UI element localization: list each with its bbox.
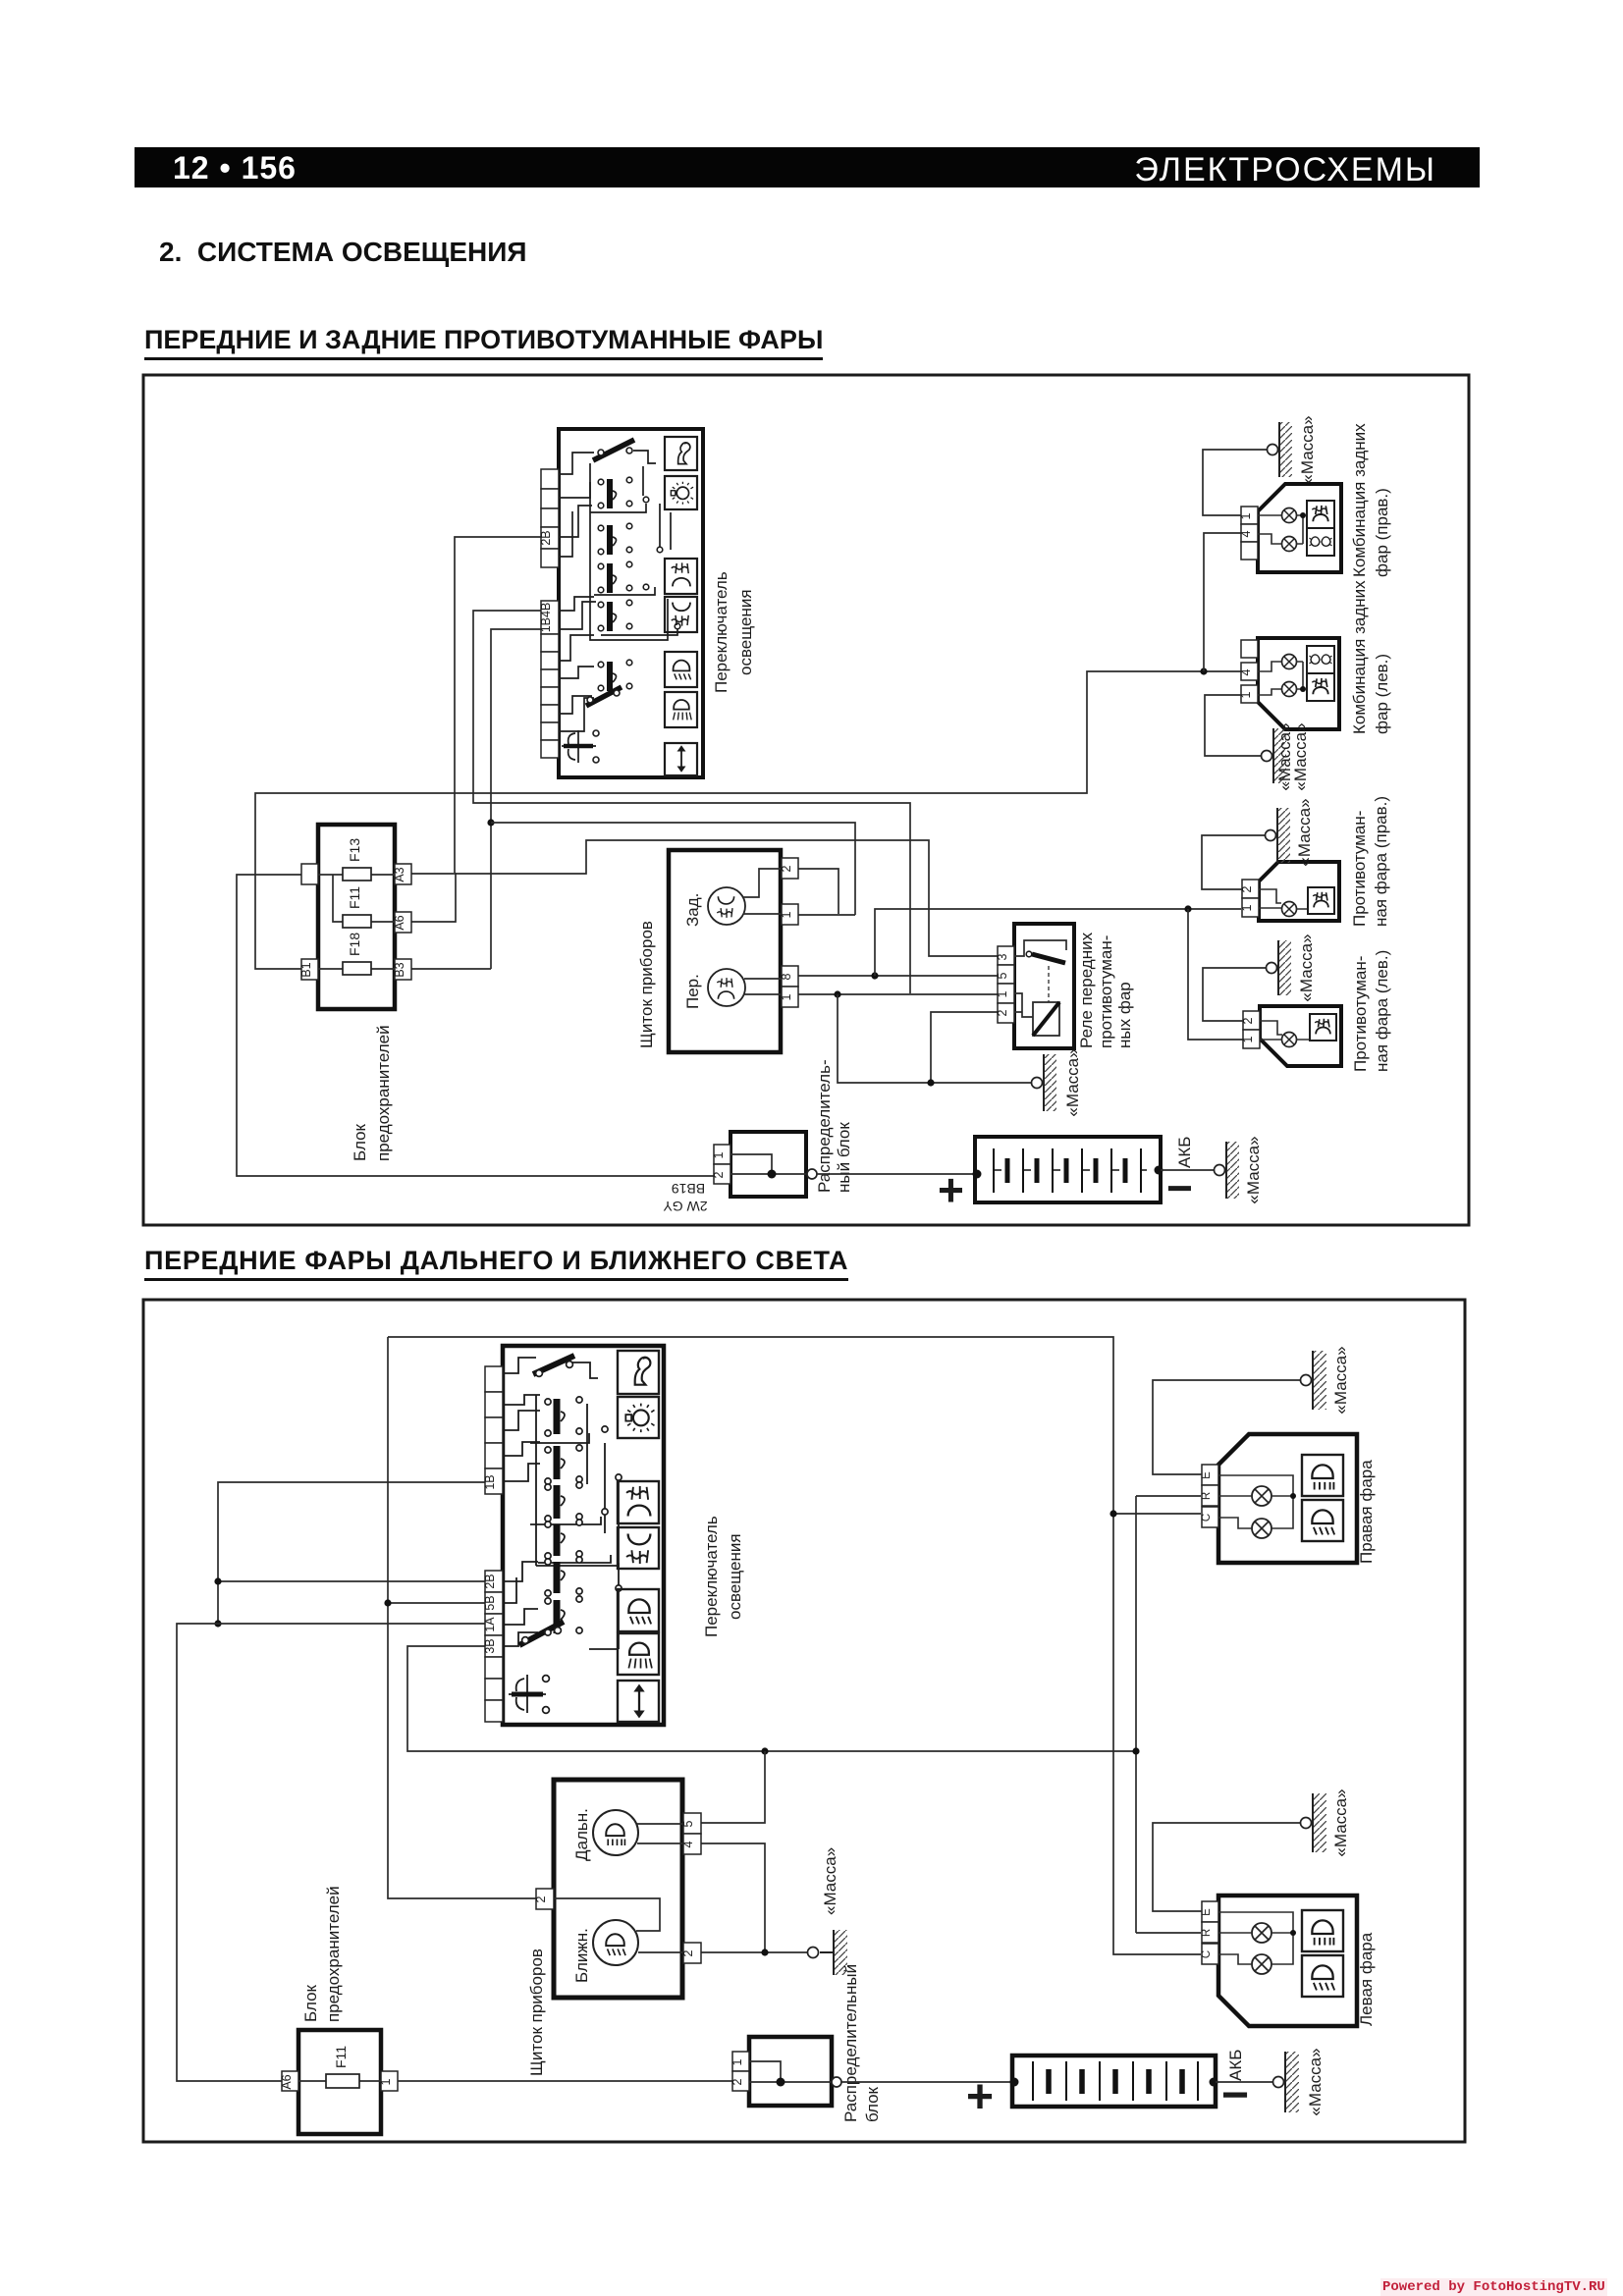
svg-text:Левая фара: Левая фара [1357,1932,1376,2026]
wire: switch pin 1B4B-b down to fuse B3 [411,629,541,969]
pin 8 [782,966,798,987]
svg-text:Пер.: Пер. [683,974,702,1009]
ground «Масса» above left headlamp [1301,1789,1351,1856]
svg-text:предохранителей: предохранителей [374,1025,393,1161]
wire: left fog pin 2 to ground [1203,968,1266,1021]
pin 1 [714,1145,730,1164]
internal wires [1258,515,1303,544]
front fog lamp left (Противотуманная фара (лев.)) [1241,950,1391,1072]
icon box pair [1307,646,1334,673]
bulb rear fog [1282,537,1297,552]
svg-text:2: 2 [1241,1017,1255,1024]
svg-text:«Масса»: «Масса» [821,1847,839,1915]
pin 1 upper [782,904,798,925]
svg-text:5В: 5В [483,1595,497,1610]
bulb tail [1282,508,1297,523]
high beam bulb [1252,1923,1271,1943]
contact circles [545,1397,622,1635]
wire: fuse feed pin to distribution block (battery net) [237,875,716,1176]
output terminal [832,2077,841,2087]
svg-text:5: 5 [681,1820,695,1827]
svg-text:В3: В3 [393,962,406,977]
icon: high beam [1302,1455,1343,1496]
svg-text:1: 1 [730,2058,744,2065]
pin A6 [395,912,411,933]
svg-text:«Масса»: «Масса» [1297,934,1316,1001]
wire: low beam net, switch 5B to headlamp C pins [388,1337,1201,1954]
output terminal [807,1169,817,1179]
low beam bulb [1252,1519,1271,1538]
svg-text:2: 2 [681,1949,695,1956]
low beam indicator (Ближн.) [593,1920,638,1965]
bulb [1282,1033,1297,1047]
svg-text:1: 1 [780,911,793,918]
icon: low beam [1302,1955,1343,1997]
svg-text:1В4В: 1В4В [539,603,553,633]
svg-text:Блок: Блок [351,1123,369,1161]
svg-text:5: 5 [996,972,1009,979]
junction: cluster pin 1 return node [834,990,840,997]
svg-text:фар (прав.): фар (прав.) [1373,488,1391,577]
svg-text:освещения: освещения [726,1533,744,1620]
svg-text:освещения: освещения [736,589,755,675]
wire: fuse output to distribution block diagram 2 [398,2080,732,2082]
wire: distribution terminal to battery + [817,1173,977,1175]
junction: right headlamp C branch [1109,1510,1116,1517]
svg-text:ная фара (лев.): ная фара (лев.) [1373,950,1391,1072]
wire: relay pin 2 down to ground run [931,1012,998,1083]
svg-text:C: C [1201,1514,1213,1522]
svg-text:блок: блок [863,2086,882,2122]
wire: fuse A3 to relay pin 3 (via y=856 run) [411,840,998,956]
svg-text:F11: F11 [333,2046,349,2068]
wire: switch pin 2B down to fuse A3 line [455,537,541,873]
light switch S2 (Переключатель освещения) diagram 2 [483,1346,744,1725]
svg-text:R: R [1201,1929,1213,1937]
internal wires [1218,1475,1293,1528]
svg-text:Комбинация задних: Комбинация задних [1350,580,1369,734]
rear fog indicator lamp (Зад.) [708,887,745,925]
header right title [1134,151,1436,189]
relay coil [1014,993,1033,1017]
pin R [1202,1485,1218,1506]
fuse block (Блок предохранителей) diagram 2 [280,1886,398,2134]
pin 1 [1242,898,1259,917]
junction: high beam indicator tap [761,1747,768,1754]
svg-text:1В: 1В [483,1474,497,1489]
junction: 5B tap [384,1599,391,1606]
junction: pin 4 on ground wire [761,1949,768,1955]
svg-text:Распределительный: Распределительный [841,1964,860,2122]
high beam indicator (Дальн.) [593,1810,638,1855]
svg-text:«Масса»: «Масса» [1063,1048,1082,1116]
bulb tail [1282,682,1297,697]
svg-text:Ближн.: Ближн. [572,1928,591,1983]
pin 2 [714,1164,730,1184]
rear lamp combination right (Комбинация задних фар (прав.)) [1239,423,1391,577]
pin 2 [782,858,798,879]
pin E [1202,1465,1218,1485]
pin B3 [395,959,411,980]
relay contact [1014,940,1066,956]
pin 1 [1241,685,1258,703]
pin E [1202,1901,1218,1922]
svg-text:3: 3 [996,953,1009,960]
wire: fuse A6 up to A3 node [411,873,456,922]
wire: cluster pin 5 up to high beam net [700,1751,765,1823]
svg-text:2: 2 [712,1171,726,1178]
lever top [593,440,634,460]
pin 1 [381,2071,398,2091]
svg-text:E: E [1201,1908,1213,1916]
bottom cross switch [509,1675,546,1713]
svg-text:1: 1 [1241,1036,1255,1042]
svg-text:предохранителей: предохранителей [324,1886,343,2022]
connector cells on left edge [485,1366,503,1722]
svg-text:1: 1 [996,990,1009,997]
front fog lamp right (Противотуманная фара (прав.)) [1240,796,1390,927]
section title [159,237,526,268]
svg-text:ная фара (прав.): ная фара (прав.) [1372,796,1390,927]
svg-text:Дальн.: Дальн. [572,1808,591,1861]
pin 3 [998,946,1014,965]
light switch S1 (Переключатель освещения) [539,429,755,777]
ground «Масса» below left combo [1262,722,1311,790]
pin (blank) left top [301,864,318,884]
pin 1 [1241,507,1258,524]
pin 4 [1241,663,1258,680]
wire: tail-light net B1 to rear lamp combos [255,671,1241,969]
svg-text:«Масса»: «Масса» [1244,1136,1263,1203]
svg-text:«Масса»: «Масса» [1331,1789,1350,1856]
wire: right headlamp E pin to ground [1153,1380,1300,1474]
footer watermark [1380,2278,1607,2296]
internal contact ladder [503,1358,619,1649]
wire: switch pin 1B4B-a to relay pin 1 / cluster lamp return [473,611,998,994]
svg-text:противотуман-: противотуман- [1097,935,1115,1048]
fuse F11 [326,2074,359,2088]
connector cells on left edge [541,469,559,758]
svg-text:C: C [1201,1950,1213,1958]
ground «Масса» above right headlamp [1301,1346,1351,1414]
pin 5 [683,1813,701,1834]
pin 4 [1241,524,1258,542]
internal wires [1218,1912,1293,1964]
svg-text:1А: 1А [483,1617,497,1632]
wire: cluster pin 4 down to indicator ground [700,1843,765,1952]
pin blank [1241,542,1258,560]
icon cells right column [618,1351,659,1722]
svg-text:«Масса»: «Масса» [1306,2048,1325,2115]
pin B1 [301,959,318,980]
lower lever [519,1622,564,1645]
svg-text:Щиток приборов: Щиток приборов [637,921,656,1048]
bottom cross switch [562,730,596,763]
instrument cluster (Щиток приборов) diagram 2 [527,1780,701,2076]
svg-text:F13: F13 [347,838,362,862]
fuse block (Блок предохранителей) diagram 1 [299,825,411,1161]
svg-text:1: 1 [712,1151,726,1158]
pin 2 [732,2071,749,2091]
pin 2 [998,1003,1014,1023]
svg-text:Переключатель: Переключатель [702,1516,721,1637]
right headlamp (Правая фара) [1201,1434,1376,1564]
bulb rear fog [1282,655,1297,669]
lever lower [586,687,622,706]
ground «Масса» at battery diagram 1 [1215,1136,1264,1203]
internal wires [554,1824,683,1952]
svg-text:E: E [1201,1471,1213,1479]
page number [173,150,297,187]
fuse F18 [343,962,371,975]
svg-text:Переключатель: Переключатель [712,571,730,693]
svg-text:+: + [966,2071,994,2123]
pin 1 [998,984,1014,1003]
svg-text:АКБ: АКБ [1175,1137,1194,1168]
svg-text:+: + [938,1164,964,1215]
svg-text:АКБ: АКБ [1226,2050,1245,2081]
wire: left headlamp E pin to ground [1153,1823,1300,1911]
page header black bar [135,147,1480,187]
ground «Масса» above right combo [1268,415,1318,483]
left headlamp (Левая фара) [1201,1896,1376,2026]
switch bars [554,1399,561,1633]
ground «Масса» above left fog lamp [1267,934,1317,1001]
wire: right combo pin 1 to ground [1203,450,1267,515]
pin 2 [1242,880,1259,898]
pin 5 [998,965,1014,984]
icon box pair [1307,501,1334,528]
wire: switch 1A to fuse A6 [177,1624,485,2081]
pin 2 right [683,1943,701,1963]
svg-text:А6: А6 [280,2074,294,2089]
internal wire [298,2080,381,2082]
svg-text:2: 2 [534,1896,548,1902]
fuse F11 [343,915,371,928]
svg-text:Блок: Блок [301,1984,320,2022]
svg-text:Комбинация задних: Комбинация задних [1350,423,1369,577]
internal wiring [749,2061,832,2082]
svg-text:Реле передних: Реле передних [1077,932,1096,1048]
wire: fog lamp feed to front fog lamps [875,909,1241,976]
internal wires [743,869,782,994]
pin blank [1241,640,1258,658]
wire: battery - to ground diagram 2 [1216,2081,1272,2083]
svg-text:Противотуман-: Противотуман- [1351,956,1370,1072]
junction: cluster indicator feed branch [487,819,494,826]
svg-text:2В: 2В [483,1574,497,1588]
heading 1 [144,325,823,360]
rear lamp combination left (Комбинация задних фар (лев.)) [1239,580,1391,734]
pin 1 [1243,1030,1260,1048]
svg-text:R: R [1201,1492,1213,1500]
svg-text:4: 4 [1239,530,1253,537]
svg-text:фар (лев.): фар (лев.) [1373,654,1391,734]
icon cells right column [665,437,697,775]
svg-text:2W GY: 2W GY [663,1199,708,1214]
icon box [1310,1014,1336,1041]
pin A6 [282,2071,298,2091]
junction: 1A on feed run [214,1620,221,1627]
svg-text:8: 8 [780,973,793,980]
wire: distribution terminal to battery + diagram 2 [841,2081,1014,2083]
front fog indicator lamp (Пер.) [708,969,745,1006]
svg-text:2: 2 [780,865,793,872]
svg-text:ВВ19: ВВ19 [672,1181,705,1197]
svg-text:А3: А3 [393,867,406,881]
heading 2 [144,1246,848,1281]
svg-text:А6: А6 [393,915,406,930]
svg-text:3В: 3В [483,1638,497,1653]
svg-text:Распределитель-: Распределитель- [815,1059,834,1193]
svg-text:Зад.: Зад. [683,893,702,927]
wire: left combo pin 1 to ground [1205,695,1261,756]
svg-text:«Масса»: «Масса» [1331,1346,1350,1414]
diagram 2 frame [143,1300,1465,2142]
svg-text:ных фар: ных фар [1115,982,1134,1048]
wire: branch up to right rear combo pin 4 [1204,533,1241,671]
svg-text:2В: 2В [539,530,553,545]
pin A3 [395,864,411,884]
internal wiring [730,1154,806,1174]
svg-text:2: 2 [730,2078,744,2085]
junction: 2B on feed run [214,1577,221,1584]
internal wiring [318,875,395,969]
distribution block (Распределительный блок) diagram 1 [663,1059,853,1214]
contact circles [587,448,680,763]
junction: branch to left fog lamp [1184,905,1191,912]
svg-text:«Масса»: «Масса» [1295,798,1314,866]
icon box [1308,887,1334,914]
svg-text:4: 4 [1239,668,1253,675]
pin 1 lower [782,987,798,1007]
svg-text:4: 4 [681,1841,695,1847]
diagram 1 frame [143,375,1469,1225]
wire: branch to instrument cluster pins 2 and 1 [491,823,855,915]
ground «Масса» at cluster diagram 2 [808,1847,848,1975]
pin C [1202,1507,1218,1527]
pin R [1202,1922,1218,1943]
internal wires [1258,662,1303,695]
wire: cluster pin 8 to relay pin 5 [798,975,998,977]
svg-text:Щиток приборов: Щиток приборов [527,1949,546,2076]
icon: high beam [1302,1910,1343,1951]
internal wires [1259,889,1308,909]
svg-text:2: 2 [996,1009,1009,1016]
svg-text:Правая фара: Правая фара [1357,1460,1376,1564]
svg-text:1: 1 [1239,512,1253,519]
ground «Масса» at battery diagram 2 [1273,2048,1325,2115]
pin 2 left [536,1889,554,1909]
svg-text:F11: F11 [347,886,362,909]
top lever [533,1356,574,1374]
battery AKB diagram 1 [938,1137,1194,1215]
junction: fog output node [871,972,878,979]
pin 1 [732,2052,749,2071]
internal contact ladder [559,451,677,731]
low beam bulb [1252,1954,1271,1974]
svg-text:1: 1 [379,2078,393,2085]
pin 2 [1243,1011,1260,1030]
distribution block (Распределительный блок) diagram 2 [730,1964,882,2122]
icon: low beam [1302,1500,1343,1541]
wire: branch down to left fog lamp pin 1 [1188,909,1243,1040]
svg-text:В1: В1 [299,962,313,977]
relay of front fog lamps (Реле передних противотуманных фар) [996,924,1134,1048]
wire: switch 2B tap [218,1580,485,1582]
wire: cluster pin 2 to ground [700,1951,807,1953]
wire: return node down to ground run [838,994,1031,1083]
junction: branch to right rear combo pin 4 [1200,667,1207,674]
internal wires [1260,1021,1310,1040]
switch bars [607,479,613,691]
junction: high beam vertical tap [1132,1747,1139,1754]
svg-text:«Масса»: «Масса» [1298,415,1317,483]
wire: switch 1B feed from fuse F11 (left run) [218,1482,485,1624]
junction: relay pin 2 on ground run [927,1079,934,1086]
wire: battery - to ground [1161,1169,1214,1171]
svg-text:1: 1 [1240,904,1254,911]
wire: right fog pin 2 to ground [1202,835,1265,889]
pin 4 [683,1834,701,1854]
svg-text:ный блок: ный блок [835,1122,853,1193]
high beam bulb [1252,1486,1271,1506]
svg-text:Противотуман-: Противотуман- [1350,811,1369,927]
pin C [1202,1944,1218,1964]
fuse F13 [343,868,371,881]
svg-text:1: 1 [780,993,793,1000]
wire: high beam net, switch 3B to headlamp R pins [407,1496,1201,1933]
bulb [1282,902,1297,917]
svg-text:«Масса»: «Масса» [1291,722,1310,790]
svg-text:2: 2 [1240,885,1254,892]
battery AKB diagram 2 [966,2050,1249,2123]
svg-text:F18: F18 [347,933,362,956]
ground «Масса» below relay [1032,1048,1083,1116]
svg-text:1: 1 [1239,691,1253,698]
ground «Масса» above right fog lamp [1266,798,1315,866]
instrument cluster (Щиток приборов) diagram 1 [637,850,798,1052]
